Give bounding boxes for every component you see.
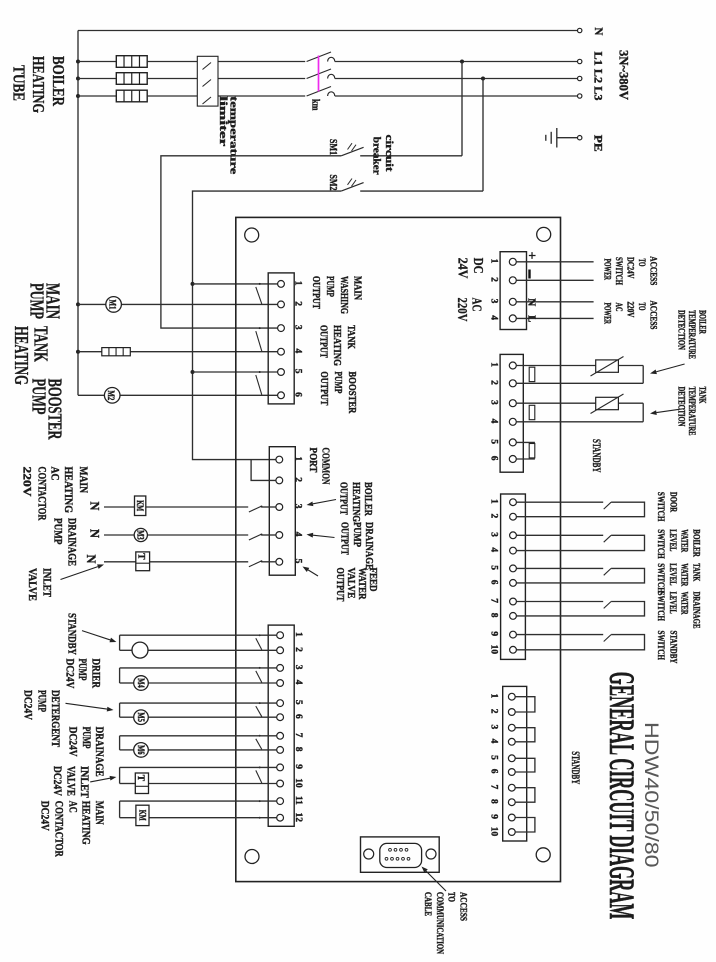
ground symbol PE [556,128,558,148]
standby circle (X3 pair 1) [132,642,148,658]
relay contact X2 [249,534,261,540]
svg-text:POWER: POWER [602,259,612,281]
svg-text:ACCESS: ACCESS [648,301,658,330]
wire phase L1 segment (km to terminal) [335,61,578,63]
svg-text:7: 7 [489,598,499,603]
mounting hole top-left [245,228,259,242]
svg-text:M3: M3 [136,530,146,540]
km contactor pole 2 [307,69,331,79]
terminal L1 [578,59,582,63]
svg-text:BOILER: BOILER [698,310,708,334]
svg-text:2: 2 [489,277,499,282]
connector J1 pins row 1 [389,848,392,851]
jumper X7 pair 2 [515,728,535,742]
svg-text:DRIER: DRIER [90,659,102,689]
svg-text:DRAINAGE: DRAINAGE [363,522,374,570]
svg-text:OUTPUT: OUTPUT [318,371,329,405]
svg-text:PE: PE [592,135,604,152]
svg-text:N: N [88,502,103,512]
wire phase L2 segment (heater to limiter) [147,78,197,80]
junction dots on neutral bus [76,60,80,64]
wire X3 pair 6 upper [120,800,277,802]
mounting hole bottom-right [536,848,550,862]
breaker SM1 [360,155,462,157]
svg-text:COMMUNICATION: COMMUNICATION [435,892,445,954]
terminal block X3 [268,625,294,826]
svg-text:2: 2 [293,477,303,482]
svg-text:OUTPUT: OUTPUT [338,482,349,515]
heating element EH3 (boiler heating tube) [116,90,147,102]
svg-text:PUMP: PUMP [324,276,335,297]
svg-text:2: 2 [293,647,303,652]
svg-text:2: 2 [489,514,499,519]
svg-text:1: 1 [293,632,303,637]
svg-text:4: 4 [489,547,499,552]
svg-text:limiter: limiter [217,96,228,147]
svg-text:CONTACTOR: CONTACTOR [52,801,64,858]
wire X4 terminal 1 [516,261,593,263]
connector J1 screw hole left [364,849,374,859]
arrow BOILER TEMPERATURE to RT1 loop [656,364,684,372]
svg-text:3: 3 [293,504,303,509]
svg-text:AC: AC [49,467,61,481]
svg-text:N: N [526,298,537,306]
arrow STANDBY to circle [82,631,110,640]
svg-text:STANDBY: STANDBY [669,631,679,664]
svg-text:WATER: WATER [356,568,367,600]
mounting hole bottom-left [245,850,259,864]
svg-text:HEATING: HEATING [331,325,342,366]
svg-text:N: N [88,529,103,539]
svg-text:WATER: WATER [679,592,689,615]
wire X4 terminal 2 [516,279,593,281]
relay contact X3 [256,638,262,650]
terminal L2 [578,76,582,80]
svg-text:TO: TO [447,892,457,902]
svg-text:4: 4 [489,739,499,744]
svg-text:10: 10 [293,778,303,788]
svg-text:AC: AC [469,298,484,312]
svg-text:220V: 220V [625,302,635,318]
terminal block X7 [503,686,527,841]
wire neutral N rail [78,30,578,32]
svg-text:5: 5 [293,559,303,564]
svg-text:PUMP: PUMP [80,727,92,749]
control board outline [236,217,561,881]
svg-text:8: 8 [293,747,303,752]
connector J1 D-shell [380,843,422,867]
arrow DRAINAGE PUMP OUTPUT to pin 4 [313,535,335,537]
filter resistor X5 pair 2 [529,405,535,419]
terminal N [578,28,582,32]
svg-text:8: 8 [489,613,499,618]
contactor coil KM (DC24V) [136,805,149,825]
svg-text:T: T [135,775,145,782]
svg-text:DETECTION: DETECTION [677,387,687,427]
svg-text:TO: TO [636,259,646,267]
wire phase L1 segment (heater to limiter) [147,61,197,63]
motor M6 drainage pump DC24V [134,743,149,758]
svg-text:9: 9 [489,814,499,819]
svg-text:1: 1 [293,281,303,286]
arrow DETERGENT PUMP to M5 [66,703,108,709]
svg-text:4: 4 [293,680,303,685]
svg-text:DRAINAGE: DRAINAGE [66,518,78,566]
temperature limiter contact [203,63,212,70]
terminal block X4 [500,252,526,330]
wire X5 pair 2 upper [516,402,595,404]
svg-text:HEATING: HEATING [10,326,32,385]
svg-text:DC24V: DC24V [625,257,635,279]
svg-text:WASHING: WASHING [338,276,349,314]
svg-text:ACCESS: ACCESS [648,256,658,285]
svg-text:HEATING: HEATING [350,482,361,522]
svg-text:1: 1 [489,362,499,367]
svg-text:DETERGENT: DETERGENT [49,690,61,747]
svg-text:10: 10 [489,645,499,655]
svg-text:FEED: FEED [367,568,378,592]
svg-text:6: 6 [489,580,499,585]
wire phase L3 segment (km to terminal) [335,95,578,97]
jumper X7 pair 3 [515,758,535,772]
svg-text:PUMP: PUMP [76,659,88,681]
svg-text:7: 7 [293,733,303,738]
svg-text:3: 3 [489,725,499,730]
svg-text:CABLE: CABLE [423,892,433,916]
svg-text:km: km [310,99,321,111]
km contactor pole 3 [307,87,331,97]
wire X3 pair 6 lower [120,817,136,819]
wire X5 pair 1 loop [642,366,644,384]
svg-text:SM2: SM2 [327,175,339,191]
heating element EH2 (boiler heating tube) [116,73,147,85]
svg-text:M1: M1 [107,300,117,310]
jumper X7 pair 4 [515,788,535,803]
svg-text:DC: DC [470,258,485,274]
wire X3 pair 2 lower [120,682,134,684]
wire SM2 to phase L2 tap [481,77,485,81]
svg-text:SWITCH: SWITCH [613,257,623,285]
svg-text:PUMP: PUMP [332,371,343,393]
svg-text:AC: AC [613,303,623,312]
svg-text:LEVEL: LEVEL [668,592,678,614]
breaker SM2 [360,190,483,192]
svg-text:2: 2 [489,380,499,385]
svg-text:L1 L2 L3: L1 L2 L3 [592,52,604,101]
svg-text:N: N [84,555,99,565]
svg-text:220V: 220V [21,467,33,498]
svg-text:2: 2 [293,301,303,306]
wire X5 pair 2 loop [642,403,644,422]
svg-text:TANK: TANK [691,563,701,581]
svg-text:1: 1 [489,694,499,699]
svg-text:OUTPUT: OUTPUT [310,276,321,309]
resistor R1 tank heating element [102,348,131,356]
svg-text:M6: M6 [136,745,146,755]
arrow BOILER HEATING OUTPUT to pin 3 [313,500,336,504]
relay contact X3 [256,770,262,783]
wire X1 terminal 6 to M2 [78,394,278,396]
svg-text:TUBE: TUBE [10,65,29,101]
svg-text:AC: AC [66,801,78,813]
switch input loop 1 upper wire [516,501,603,503]
svg-text:DETECTION: DETECTION [677,310,687,350]
switch blade 4 [604,602,611,609]
svg-text:24V: 24V [454,258,469,279]
svg-text:4: 4 [489,419,499,424]
switch blade 5 [604,635,611,642]
svg-text:3: 3 [489,299,499,304]
svg-text:DC24V: DC24V [22,690,34,721]
wire phase L3 segment (star point to heater) [78,95,116,97]
svg-text:TEMPERATURE: TEMPERATURE [687,387,697,436]
wire X3 pair 1 upper [120,634,277,636]
svg-text:6: 6 [489,456,499,461]
svg-text:5: 5 [489,755,499,760]
svg-text:+: + [524,252,539,260]
svg-text:MAIN: MAIN [93,801,105,826]
svg-text:OUTPUT: OUTPUT [318,325,329,358]
svg-text:5: 5 [489,565,499,570]
svg-text:5: 5 [293,369,303,374]
svg-text:KM: KM [134,500,144,511]
switch input loop 1 outer wire [516,502,644,517]
wire SM1 to phase L1 tap [460,60,464,64]
svg-text:TANK: TANK [698,387,708,404]
relay contact X1 [256,375,262,395]
svg-text:4: 4 [489,315,499,320]
switch input loop 3 outer wire [516,568,644,583]
wire PE [557,137,578,139]
svg-text:HEATING: HEATING [29,56,48,113]
svg-text:DC24V: DC24V [66,727,78,758]
svg-text:1: 1 [293,456,303,461]
relay contact X3 [256,739,262,750]
arrow to DB9 connector [426,871,446,891]
wire X3 pair 4 upper [120,735,277,737]
km contactor pole 1 [307,52,331,62]
svg-text:6: 6 [293,392,303,397]
svg-text:temperature: temperature [228,96,239,174]
svg-text:TO: TO [636,303,646,311]
terminal block X1 [268,273,294,404]
svg-text:breaker: breaker [371,137,382,175]
svg-text:1: 1 [489,499,499,504]
svg-text:MAIN: MAIN [77,467,89,494]
svg-text:DC24V: DC24V [63,659,75,690]
terminal L3 [578,94,582,98]
svg-text:WATER: WATER [679,529,689,552]
svg-text:PUMP: PUMP [52,518,64,545]
svg-text:PUMP: PUMP [36,690,48,712]
switch blade 2 [604,535,611,542]
svg-text:STANDBY: STANDBY [569,751,583,784]
svg-text:BOILER: BOILER [691,529,701,557]
wire X5 pair 1 lower [516,382,643,384]
wire N to KM coil [104,506,134,508]
wire X3 pair 1 return [119,635,121,650]
wire X3 pair 3 lower [120,716,134,718]
wire X5 pair 1 upper [516,365,595,367]
svg-text:6: 6 [489,769,499,774]
svg-text:4: 4 [293,349,303,354]
temperature limiter contact [203,97,212,104]
svg-text:LEVEL: LEVEL [668,529,678,551]
switch input loop 3 upper wire [516,567,603,569]
svg-text:5: 5 [293,700,303,705]
filter resistor X5 pair 3 [529,444,535,458]
wire X3 pair 2 return [119,668,121,683]
temperature limiter contact [203,80,212,87]
svg-text:DRAINAGE: DRAINAGE [93,727,105,777]
svg-text:BOILER: BOILER [362,482,373,516]
svg-text:SWITCH: SWITCH [656,563,666,593]
temperature limiter box [197,56,218,106]
wire phase L2 segment (limiter to km) [218,78,305,80]
svg-text:DRAINAGE: DRAINAGE [691,592,701,629]
motor M5 detergent pump [134,710,149,725]
motor M2 booster pump [104,388,120,404]
svg-text:STANDBY: STANDBY [590,439,604,473]
svg-text:TEMPERATURE: TEMPERATURE [687,310,697,359]
svg-text:3: 3 [489,400,499,405]
arrow INLET VALVE to valve [61,567,98,580]
svg-text:11: 11 [293,796,303,805]
svg-text:4: 4 [293,532,303,537]
svg-text:CONTACTOR: CONTACTOR [35,467,47,522]
svg-text:1: 1 [489,259,499,264]
switch blade 3 [604,568,611,575]
svg-text:HDW40/50/80: HDW40/50/80 [640,722,662,868]
thermistor RT2 tank temperature [596,397,619,409]
wire phase L1 segment (limiter to km) [218,61,305,63]
switch input loop 2 outer wire [516,535,644,550]
switch input loop 5 outer wire [516,635,644,650]
relay contact X2 [249,561,261,567]
wire X1 terminal 2 to M1 [78,303,278,305]
wire X2 terminal 1-2 jumper [251,460,276,481]
svg-text:HEATING: HEATING [79,801,91,845]
svg-text:3: 3 [489,532,499,537]
wire X3 pair 5 upper [120,766,277,768]
wire X3 pair 2 upper [120,667,277,669]
terminal block X2 [269,447,295,576]
svg-text:OUTPUT: OUTPUT [339,522,350,555]
svg-text:L: L [526,315,537,322]
km linkage line (magenta) [318,56,320,92]
inlet valve YV2 (DC24V) [135,773,148,794]
wire X3 pair 5 lower [120,783,136,785]
jumper X7 pair 1 [515,697,535,712]
wire X3 pair 3 return [119,703,121,717]
svg-text:SM1: SM1 [327,139,339,155]
relay contact X3 [256,671,262,683]
svg-text:KM: KM [136,810,146,821]
svg-text:VALVE: VALVE [345,568,356,599]
wire X3 pair 1 lower [120,649,132,651]
svg-text:M2: M2 [105,390,115,400]
thermistor RT1 boiler temperature [596,360,619,372]
wire phase L3 segment (heater to limiter) [147,95,197,97]
terminal block X5 [500,354,523,472]
wire X3 pair 4 lower [120,749,134,751]
relay contact X1 [256,287,262,304]
wire phase L2 segment (star point to heater) [78,78,116,80]
wire X3 pair 6 return [119,801,121,818]
svg-text:PUMP: PUMP [351,522,362,547]
svg-text:POWER: POWER [602,303,612,325]
svg-text:ACCESS: ACCESS [458,892,468,921]
wire tap to X1 terminal 5 [191,370,195,374]
motor M4 drier pump [134,676,149,691]
svg-text:5: 5 [489,439,499,444]
svg-text:LEVEL: LEVEL [668,563,678,585]
wire N to inlet valve [104,561,248,563]
contactor coil KM (220V) [135,496,146,516]
connector J1 DB9 plate [361,837,440,872]
svg-text:T: T [135,553,145,560]
wire X5 pair 3 lower [516,458,535,460]
wire SM1 output to block X1 terminal 3 [161,156,341,328]
svg-text:8: 8 [489,799,499,804]
svg-text:GENERAL CIRCUIT DIAGRAM: GENERAL CIRCUIT DIAGRAM [602,672,642,920]
terminal block X6 [501,494,526,659]
svg-text:HEATING: HEATING [62,467,74,514]
svg-text:PUMP: PUMP [26,283,48,319]
motor M3 drainage pump [134,528,147,541]
svg-text:3: 3 [293,665,303,670]
svg-text:3: 3 [293,325,303,330]
svg-text:circuit: circuit [383,135,394,173]
svg-text:SWITCH: SWITCH [656,631,666,661]
svg-text:220V: 220V [454,298,469,322]
svg-text:9: 9 [293,764,303,769]
svg-text:2: 2 [489,709,499,714]
svg-text:WATER: WATER [679,563,689,586]
wire X4 terminal 3 [516,301,593,303]
arrow TANK TEMPERATURE to RT2 loop [656,409,684,413]
svg-text:DOOR: DOOR [669,492,679,513]
wire phase L1 segment (star point to heater) [78,61,116,63]
wire phase L3 segment (limiter to km) [218,95,305,97]
svg-text:6: 6 [293,714,303,719]
wire X5 pair 3 upper [516,441,535,443]
terminal PE [578,136,582,140]
svg-text:DC24V: DC24V [51,766,63,797]
jumper X7 pair 5 [515,818,535,833]
connector J1 screw hole right [426,849,436,859]
svg-text:VALVE: VALVE [26,568,38,601]
wire KM coil to X2 terminal 3 [146,506,248,508]
relay contact X1 [256,331,262,351]
svg-text:M5: M5 [136,712,146,722]
wire N to M3 [104,534,248,536]
relay contact X3 [256,706,262,717]
mounting hole top-right [537,227,551,241]
svg-text:MAIN: MAIN [351,276,362,300]
svg-text:INLET: INLET [78,766,90,798]
wire X3 pair 5 return [119,767,121,783]
wire tap to X1 terminal 1 [191,282,195,286]
svg-text:M4: M4 [136,678,146,688]
label - mark [528,270,530,279]
svg-text:SWITCH: SWITCH [656,492,666,522]
wire X3 pair 4 return [119,736,121,750]
wire phase L2 segment (km to terminal) [335,78,578,80]
wire SM2 output drop [193,191,342,460]
svg-text:DC24V: DC24V [39,801,51,832]
svg-text:OUTPUT: OUTPUT [334,568,345,602]
